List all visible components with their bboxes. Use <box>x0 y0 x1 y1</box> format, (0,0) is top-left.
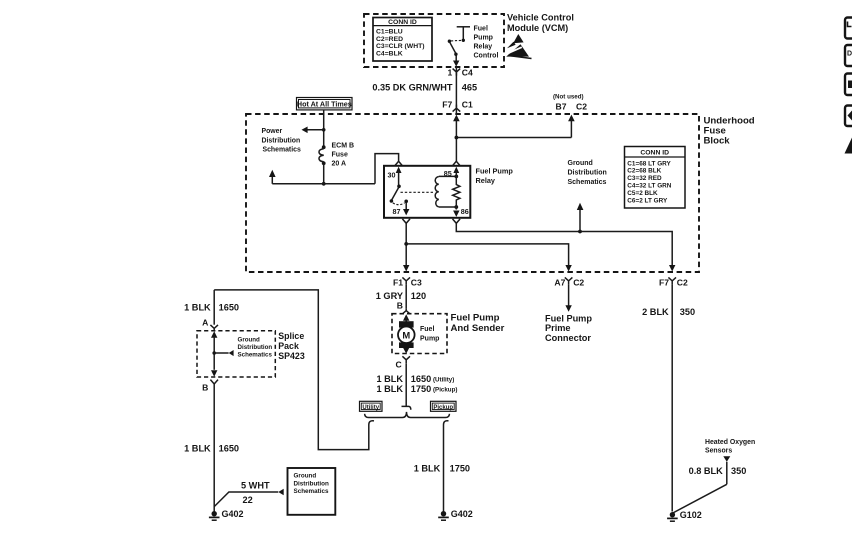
svg-text:1: 1 <box>448 68 453 78</box>
connector symbol F1 C3 <box>393 277 422 287</box>
connector symbol at B <box>402 308 410 314</box>
svg-text:C2: C2 <box>576 101 587 111</box>
toolbar icon 3 <box>845 74 852 96</box>
pin chevron 30 <box>395 161 403 165</box>
svg-text:Pump: Pump <box>420 335 439 342</box>
svg-text:Power: Power <box>262 128 283 135</box>
svg-text:2 BLK: 2 BLK <box>642 307 669 317</box>
connector symbol at A <box>210 325 218 331</box>
node coil bottom on pin85 wire <box>454 205 458 209</box>
wire B7/C2 stub to F7/C1 wire <box>455 118 572 139</box>
pin 30 arrow inside relay <box>396 167 402 185</box>
svg-text:Pump: Pump <box>474 35 493 42</box>
svg-text:C1: C1 <box>462 100 473 110</box>
arrow out of splice box <box>211 370 217 376</box>
wire pickup branch to G402 <box>444 421 449 512</box>
svg-text:Vehicle Control: Vehicle Control <box>507 13 574 23</box>
svg-text:Splice: Splice <box>278 331 304 341</box>
wire junction horizontal run <box>272 183 375 185</box>
svg-text:D: D <box>847 51 852 58</box>
node arrow into fuse block at F7/C1 <box>453 115 460 122</box>
label B7 C2 <box>556 101 588 111</box>
svg-text:G402: G402 <box>222 509 244 519</box>
pin chevron 87 below relay <box>402 219 410 223</box>
svg-text:(Utility): (Utility) <box>433 376 454 383</box>
wire label 0.8 BLK 350 <box>689 466 747 476</box>
ground G402 (pickup) <box>438 509 473 520</box>
exit arrow A7/C2 <box>565 265 571 272</box>
svg-text:1 BLK: 1 BLK <box>184 303 211 313</box>
svg-text:Schematics: Schematics <box>294 488 329 495</box>
svg-text:1650: 1650 <box>219 443 239 453</box>
fuse block CONN ID table <box>625 147 686 209</box>
label Fuel Pump And Sender <box>451 312 505 334</box>
connector symbol A7 C2 <box>554 277 584 287</box>
node splice junction <box>212 351 216 355</box>
svg-text:1 BLK: 1 BLK <box>184 443 211 453</box>
svg-text:C1=68 LT GRY: C1=68 LT GRY <box>627 160 671 167</box>
svg-text:F7: F7 <box>442 100 452 110</box>
label Fuel Pump (motor) <box>420 326 439 342</box>
svg-text:Utility: Utility <box>362 405 379 411</box>
svg-text:Relay: Relay <box>476 176 496 185</box>
relay coil <box>435 176 456 207</box>
svg-text:C3=32 RED: C3=32 RED <box>627 175 662 182</box>
wire F1/C3 to fuel pump <box>405 284 407 308</box>
svg-text:Distribution: Distribution <box>568 170 607 177</box>
label Heated Oxygen Sensors <box>705 439 755 455</box>
wire hot feed down to fuse <box>323 110 325 146</box>
svg-text:Module (VCM): Module (VCM) <box>507 23 568 33</box>
node junction 87/A7 <box>404 242 408 246</box>
svg-text:Control: Control <box>474 53 499 60</box>
svg-text:A: A <box>202 317 208 327</box>
svg-text:Schematics: Schematics <box>238 352 273 359</box>
svg-text:C3: C3 <box>411 277 422 287</box>
label Fuel Pump Prime Connector <box>545 314 592 343</box>
connector symbol at C <box>402 356 410 363</box>
svg-text:F1: F1 <box>393 277 403 287</box>
svg-text:C: C <box>395 360 401 370</box>
wire heated oxygen sensors stub <box>726 462 728 485</box>
svg-text:0.8 BLK: 0.8 BLK <box>689 466 724 476</box>
svg-text:1 BLK: 1 BLK <box>376 374 403 384</box>
svg-text:(Pickup): (Pickup) <box>433 386 457 393</box>
wire C down to variant brace <box>405 363 407 406</box>
svg-text:Prime: Prime <box>545 323 571 333</box>
pin 87 arrow to relay bottom <box>403 203 409 216</box>
svg-text:Pack: Pack <box>278 341 299 351</box>
pin chevron 86 below relay <box>453 219 461 223</box>
svg-text:0.35 DK GRN/WHT: 0.35 DK GRN/WHT <box>372 83 453 93</box>
wire label 1 GRY 120 <box>376 291 426 301</box>
svg-text:M: M <box>402 329 410 340</box>
arrow from heated oxygen sensors <box>723 456 730 462</box>
relay resistor <box>453 170 460 210</box>
label Fuel Pump Relay Control <box>474 26 499 60</box>
wire label 1 BLK 1650 (Utility) <box>376 374 454 384</box>
wire splice to G402 <box>213 384 215 512</box>
connector symbol F7 C2 <box>659 277 688 287</box>
fuse ECM B 20A <box>319 145 326 165</box>
arrow out of pump box <box>403 348 409 354</box>
variant brace <box>365 412 450 418</box>
svg-text:Schematics: Schematics <box>263 147 301 154</box>
wire F7/C1 down to relay 85 junction <box>455 118 457 161</box>
svg-text:Fuel Pump: Fuel Pump <box>476 166 514 175</box>
svg-text:Block: Block <box>704 135 731 146</box>
toolbar icon 4 <box>845 106 852 127</box>
Pickup box <box>431 401 457 411</box>
label Fuel Pump Relay <box>476 166 514 185</box>
svg-text:1750: 1750 <box>411 384 431 394</box>
arrow into splice box <box>211 331 217 370</box>
svg-text:Pickup: Pickup <box>433 405 453 411</box>
svg-text:C2=68 BLK: C2=68 BLK <box>627 168 661 175</box>
wire A7 to fuel pump prime connector <box>565 284 571 311</box>
wire label 2 BLK 350 <box>642 307 695 317</box>
node fuse output junction <box>322 182 326 186</box>
connector symbol F7 C1 <box>442 100 473 112</box>
wire label 1 BLK 1750 (pickup branch) <box>414 463 470 473</box>
toolbar icon 2 <box>845 45 852 66</box>
Fuel Pump Relay box <box>384 166 470 218</box>
svg-text:1 GRY: 1 GRY <box>376 291 403 301</box>
wire label 0.35 DK GRN/WHT 465 <box>372 83 477 93</box>
svg-text:Connector: Connector <box>545 333 591 343</box>
wire to power distribution schematics <box>302 127 324 134</box>
svg-text:86: 86 <box>461 207 469 216</box>
label Splice Pack SP423 <box>278 331 305 361</box>
arrow into pump box <box>403 314 409 321</box>
svg-text:C3=CLR (WHT): C3=CLR (WHT) <box>376 43 425 50</box>
svg-text:Fuel: Fuel <box>420 326 434 333</box>
svg-text:Distribution: Distribution <box>238 344 273 351</box>
wire diagonal to G102 <box>673 484 727 513</box>
wire pin 86 to F7/C2 exit <box>456 223 672 265</box>
label Ground Distribution Schematics (splice) <box>238 337 273 359</box>
Hot At All Times box <box>297 98 353 110</box>
fuel pump motor M <box>398 321 415 348</box>
label Underhood Fuse Block <box>704 115 755 146</box>
node junction to power distribution <box>322 128 326 132</box>
svg-text:C2: C2 <box>677 277 688 287</box>
exit arrow F7/C2 <box>669 265 675 272</box>
svg-text:ECM B: ECM B <box>332 143 355 150</box>
toolbar warning triangle <box>845 138 852 154</box>
VCM CONN ID table <box>373 18 432 62</box>
svg-text:C2=RED: C2=RED <box>376 36 403 43</box>
svg-text:Ground: Ground <box>568 160 593 167</box>
svg-text:C1=BLU: C1=BLU <box>376 29 403 36</box>
splice pack SP423 dashed box <box>197 331 275 377</box>
label ECM B Fuse 20 A <box>332 143 355 168</box>
svg-text:465: 465 <box>462 83 477 93</box>
svg-text:Sensors: Sensors <box>705 447 732 454</box>
svg-text:1 BLK: 1 BLK <box>376 384 403 394</box>
svg-text:Heated Oxygen: Heated Oxygen <box>705 439 755 446</box>
svg-text:30: 30 <box>388 170 396 179</box>
exit arrow F1/C3 <box>403 265 409 272</box>
svg-text:Fuel: Fuel <box>474 26 488 33</box>
connector symbol 1 Y C4 <box>448 68 473 78</box>
svg-text:C2: C2 <box>573 277 584 287</box>
label Power Distribution Schematics <box>262 128 301 153</box>
wire to relay pin 30 <box>375 154 399 184</box>
svg-text:G102: G102 <box>680 510 702 520</box>
label Ground Distribution Schematics (fuse block) <box>568 160 607 186</box>
svg-text:Relay: Relay <box>474 44 493 51</box>
svg-text:SP423: SP423 <box>278 351 305 361</box>
svg-text:C6=2 LT GRY: C6=2 LT GRY <box>627 197 668 204</box>
toolbar icon 1 (cut off at right edge) <box>845 18 852 39</box>
label Vehicle Control Module (VCM) <box>507 13 574 33</box>
svg-text:B: B <box>202 383 208 393</box>
svg-text:Fuse: Fuse <box>332 152 348 159</box>
svg-text:CONN ID: CONN ID <box>640 150 669 157</box>
svg-text:1750: 1750 <box>450 463 470 473</box>
wire VCM pin 1/C4 to fuse block F7/C1 <box>455 67 457 114</box>
wire label 1 BLK 1650 (B side) <box>184 443 239 453</box>
svg-text:1650: 1650 <box>219 303 239 313</box>
node junction ground distribution stub <box>578 230 582 234</box>
Utility box <box>360 401 383 411</box>
svg-text:C5=2 BLK: C5=2 BLK <box>627 190 658 197</box>
wire utility branch <box>214 290 374 450</box>
svg-text:1650: 1650 <box>411 374 431 384</box>
svg-text:120: 120 <box>411 291 426 301</box>
relay switch contacts <box>390 185 408 205</box>
svg-text:C4: C4 <box>462 68 473 78</box>
svg-text:Ground: Ground <box>294 473 317 480</box>
ground G102 <box>667 510 702 521</box>
wire splice pack feed (left vertical, A side) <box>213 290 215 325</box>
wire label 1 BLK 1750 (Pickup) <box>376 384 457 394</box>
svg-text:C4=BLK: C4=BLK <box>376 51 403 58</box>
pin 86 arrow to relay bottom <box>453 211 459 217</box>
fuel pump relay control switch (in VCM) <box>448 27 470 67</box>
svg-text:A7: A7 <box>554 277 565 287</box>
svg-text:(Not used): (Not used) <box>553 93 584 100</box>
svg-text:C4=32 LT GRN: C4=32 LT GRN <box>627 183 671 190</box>
svg-text:B7: B7 <box>556 101 567 111</box>
svg-text:Ground: Ground <box>238 337 261 344</box>
wire to ground distribution schematics (splice) <box>214 350 233 356</box>
wire F7/C2 down to G102 <box>671 284 673 511</box>
svg-text:F7: F7 <box>659 277 669 287</box>
node arrow B7/C2 (not used) <box>568 115 575 122</box>
svg-text:22: 22 <box>243 495 253 505</box>
svg-text:Hot At All Times: Hot At All Times <box>297 100 352 109</box>
node coil top on pin85 wire <box>454 175 458 179</box>
arrow stub up to ground distribution <box>577 203 584 232</box>
svg-text:Distribution: Distribution <box>262 137 301 144</box>
svg-text:5 WHT: 5 WHT <box>241 481 270 491</box>
ESD sensitivity symbol <box>506 34 531 59</box>
Ground Distribution Schematics box <box>288 468 336 515</box>
svg-text:Schematics: Schematics <box>568 179 607 186</box>
svg-text:350: 350 <box>731 466 746 476</box>
svg-text:87: 87 <box>393 207 401 216</box>
wire pin 87 down to F1/C3 exit <box>405 223 407 265</box>
pin 85 arrow inside relay <box>453 167 459 173</box>
svg-text:350: 350 <box>680 307 695 317</box>
svg-text:CONN ID: CONN ID <box>388 19 417 26</box>
wire end hook above brace <box>402 406 411 409</box>
wire fuse to junction <box>323 165 325 184</box>
ground G402 (left) <box>209 509 244 520</box>
VCM dashed box <box>364 14 504 67</box>
pin chevron below splice box <box>210 380 218 384</box>
svg-text:Fuel Pump: Fuel Pump <box>451 312 500 323</box>
svg-text:Fuel Pump: Fuel Pump <box>545 314 592 324</box>
svg-text:B: B <box>397 301 403 311</box>
svg-text:Distribution: Distribution <box>294 480 329 487</box>
Fuel Pump And Sender dashed box <box>392 314 447 354</box>
wire 5 WHT 22 to ground distribution box <box>214 489 284 507</box>
wire label 1 BLK 1650 (A side) <box>184 303 239 313</box>
svg-text:1 BLK: 1 BLK <box>414 463 441 473</box>
pin chevron 85 <box>453 161 461 165</box>
svg-text:And Sender: And Sender <box>451 323 505 334</box>
wire junction to A7 exit <box>406 244 568 266</box>
svg-text:20 A: 20 A <box>332 161 347 168</box>
svg-text:G402: G402 <box>451 509 473 519</box>
Underhood Fuse Block dashed box <box>246 114 699 272</box>
arrow stub up (feed continues) <box>269 170 276 184</box>
relay linkage dashed <box>401 191 434 193</box>
